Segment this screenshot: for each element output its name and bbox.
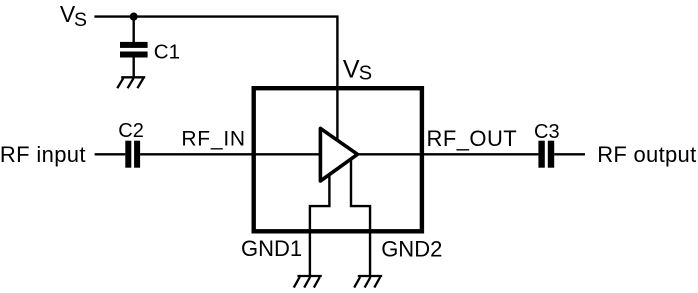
svg-text:V: V [343,55,360,83]
svg-text:C2: C2 [118,120,144,142]
svg-text:GND2: GND2 [381,236,442,261]
svg-text:S: S [74,9,87,31]
svg-text:RF output: RF output [597,142,696,167]
svg-text:C1: C1 [154,41,180,64]
svg-text:GND1: GND1 [241,236,302,261]
svg-text:RF_OUT: RF_OUT [427,126,518,151]
svg-text:S: S [359,63,372,85]
svg-text:C3: C3 [534,121,560,143]
svg-text:RF input: RF input [0,142,86,167]
svg-text:RF_IN: RF_IN [181,128,245,151]
